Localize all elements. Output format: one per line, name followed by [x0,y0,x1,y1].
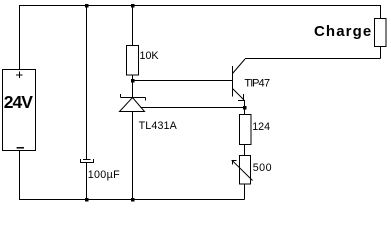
svg-text:TL431A: TL431A [139,120,178,132]
svg-text:24V: 24V [4,92,33,112]
svg-text:100µF: 100µF [88,169,120,181]
svg-text:Charge: Charge [314,23,372,40]
svg-text:124: 124 [252,121,270,133]
svg-text:500: 500 [253,162,272,174]
svg-text:10K: 10K [140,50,160,62]
svg-text:TIP47: TIP47 [244,77,270,89]
